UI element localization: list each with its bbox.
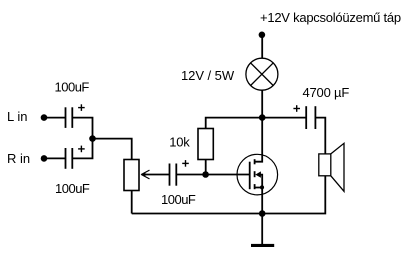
speaker LS1: [319, 143, 344, 191]
node gate junction: [202, 171, 209, 178]
node +12V supply terminal: [259, 32, 266, 39]
wire gate node to Q1 gate: [206, 174, 250, 176]
svg-text:100uF: 100uF: [55, 80, 90, 95]
capacitor C1 100uF: [66, 107, 73, 128]
channel segment drain side: [254, 159, 256, 164]
wire C1 to node A: [72, 118, 92, 139]
wire C3 to gate node: [176, 174, 205, 176]
svg-text:L in: L in: [7, 109, 27, 124]
svg-text:R in: R in: [7, 151, 30, 166]
lamp LA1 12V/5W: [246, 58, 278, 90]
wire R terminal to C2: [44, 157, 66, 159]
svg-text:12V / 5W: 12V / 5W: [181, 68, 235, 83]
svg-text:10k: 10k: [169, 135, 190, 150]
gate plate: [249, 162, 251, 190]
wire speaker to ground rail: [262, 176, 325, 214]
wire node A to potentiometer P1 top: [93, 139, 132, 160]
potentiometer P1 body: [124, 160, 139, 191]
wire node B to resistor R1 top: [206, 118, 263, 129]
wire node B to capacitor C4: [262, 117, 306, 119]
capacitor C4 4700uF: [306, 106, 315, 129]
label C3 plus: [182, 160, 189, 167]
svg-text:100uF: 100uF: [161, 192, 196, 207]
node L input terminal: [41, 114, 48, 121]
channel segment source side: [254, 184, 256, 189]
wire junction to ground symbol: [261, 214, 263, 245]
body connection: [260, 175, 262, 188]
label C2 plus: [78, 146, 85, 153]
node R input terminal: [41, 155, 48, 162]
capacitor C3 100uF (wiper coupling): [170, 164, 177, 186]
potentiometer P1 wiper arrow: [141, 170, 169, 179]
wire P1 bottom to ground rail: [131, 191, 133, 214]
svg-text:4700 µF: 4700 µF: [303, 85, 350, 100]
node source-body junction: [260, 185, 264, 189]
label C1 plus: [78, 104, 85, 111]
svg-text:+12V kapcsolóüzemű táp: +12V kapcsolóüzemű táp: [260, 10, 401, 25]
wire resistor R1 bottom to gate node: [205, 160, 207, 175]
ground: [251, 244, 274, 247]
source contact: [255, 188, 263, 214]
drain contact: [255, 118, 263, 162]
resistor R1 10k: [198, 129, 213, 160]
node B junction below lamp: [259, 114, 266, 121]
node ground junction: [259, 210, 266, 217]
wire lamp to node B: [261, 90, 263, 117]
label C4 plus: [293, 105, 300, 112]
transistor Q1 MOSFET: [237, 118, 278, 214]
node A mixing junction: [89, 135, 96, 142]
wire L terminal to C1: [44, 117, 66, 119]
wire C4 to speaker: [315, 118, 325, 154]
channel segment body: [254, 171, 256, 177]
wire ground rail left: [132, 213, 263, 215]
wire C2 to node A: [72, 139, 92, 159]
wire terminal to lamp: [261, 35, 263, 59]
capacitor C2 100uF: [66, 148, 73, 169]
svg-text:100uF: 100uF: [55, 181, 90, 196]
body arrow of Q1: [255, 171, 261, 177]
